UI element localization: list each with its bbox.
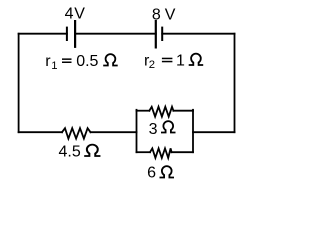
resistor R2 3 ohm zigzag <box>149 107 173 117</box>
wire bottom branch left lead <box>137 151 151 153</box>
svg-text:4: 4 <box>65 6 74 23</box>
wire right side <box>234 34 236 133</box>
wire top-right from battery V2 <box>162 33 234 35</box>
label r1 = 0.5 ohm <box>45 53 117 72</box>
svg-text:6: 6 <box>147 165 156 182</box>
wire between battery V1 and battery V2 <box>75 33 156 35</box>
wire top branch right lead <box>173 110 193 112</box>
label r2 = 1 ohm <box>144 52 203 71</box>
wire left side <box>18 34 20 133</box>
svg-text:V: V <box>165 6 176 23</box>
resistor R3 6 ohm zigzag <box>150 148 172 158</box>
svg-text:3: 3 <box>149 121 158 138</box>
svg-text:1: 1 <box>51 60 57 72</box>
battery V2 8V tall plate <box>155 21 157 47</box>
battery V2 8V short plate <box>161 28 163 40</box>
svg-text:2: 2 <box>149 59 155 71</box>
label 4 V <box>65 6 86 23</box>
svg-text:V: V <box>74 6 85 23</box>
battery V1 4V short plate <box>66 28 68 40</box>
label 6 ohm <box>147 165 174 182</box>
resistor R1 4.5 ohm zigzag <box>62 128 91 138</box>
node right vertical of parallel block <box>192 110 194 152</box>
wire bottom-left to resistor 4.5 ohm <box>19 131 62 133</box>
wire top branch left lead <box>137 110 150 112</box>
svg-text:8: 8 <box>152 6 161 23</box>
svg-text:4.5: 4.5 <box>59 143 81 160</box>
svg-text:1: 1 <box>176 52 185 69</box>
label 8 V <box>152 6 176 23</box>
battery V1 4V tall plate <box>74 21 76 47</box>
node left vertical of parallel block <box>136 110 138 152</box>
wire bottom-right to parallel block <box>193 131 235 133</box>
wire top-left to battery V1 <box>19 33 67 35</box>
label 3 ohm <box>149 121 176 138</box>
wire resistor 4.5 ohm to parallel block <box>91 131 137 133</box>
wire bottom branch right lead <box>172 151 193 153</box>
svg-text:0.5: 0.5 <box>76 53 98 70</box>
label 4.5 ohm <box>59 143 101 160</box>
